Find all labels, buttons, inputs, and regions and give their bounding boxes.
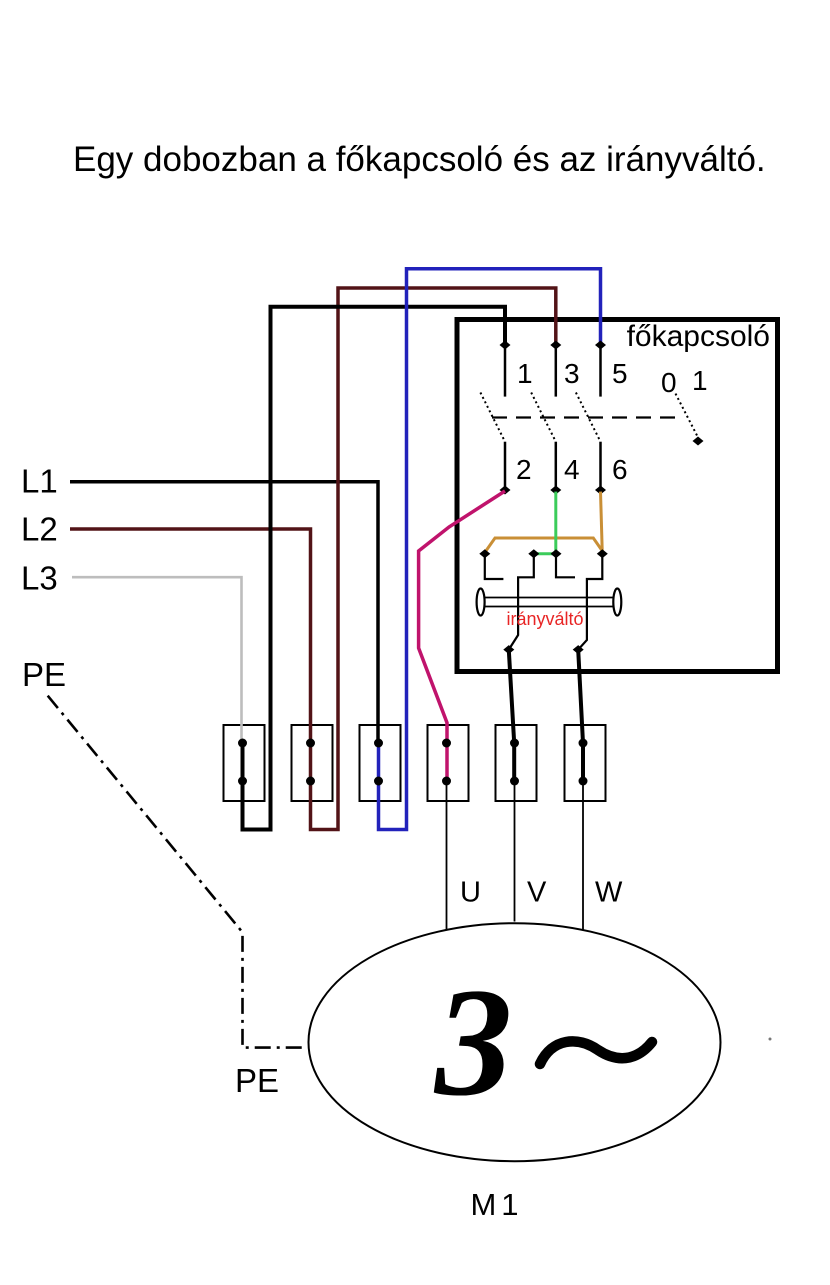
wire contact6 down (orange) (601, 492, 603, 554)
terminal dot contact 4 (550, 486, 561, 495)
wire reverser to X6 (thick black) (578, 650, 583, 781)
svg-text:V: V (527, 877, 547, 909)
actuator end dot (693, 437, 704, 446)
svg-text:5: 5 (612, 358, 628, 389)
reverser output dot right (573, 645, 584, 654)
reverser contact from D to output (578, 554, 602, 650)
wire X4 to motor U (446, 781, 448, 930)
wire contact2 to X4 (magenta) (419, 491, 505, 781)
svg-text:1: 1 (692, 365, 708, 396)
wire L3 (grey) to terminal X1 (72, 577, 242, 743)
svg-text:3: 3 (433, 956, 513, 1128)
svg-text:irányváltó: irányváltó (506, 609, 583, 629)
switch pole 3-4 vertical top (555, 345, 558, 397)
reverser contact from C (open) (556, 554, 575, 578)
terminal block X3 (360, 725, 401, 801)
switch pole 3-4 lever (dotted) (531, 393, 556, 442)
reverser node dot C (551, 549, 562, 558)
switch pole 5-6 vertical top (599, 345, 602, 397)
reverser output dot left (503, 645, 514, 654)
svg-text:L3: L3 (21, 560, 58, 597)
terminal X5 top dot (510, 739, 519, 748)
terminal dot contact 3 (550, 341, 561, 350)
svg-text:1: 1 (517, 358, 533, 389)
reverser node dot A (479, 549, 490, 558)
terminal X2 top dot (306, 739, 315, 748)
svg-text:Egy dobozban a főkapcsoló és a: Egy dobozban a főkapcsoló és az irányvál… (73, 140, 766, 179)
green jumper on reverser row (534, 552, 556, 555)
terminal block X6 (565, 725, 606, 801)
switch pole 5-6 vertical bottom (599, 442, 602, 490)
terminal dot contact 5 (595, 341, 606, 350)
reverser node dot D (597, 549, 608, 558)
svg-text:2: 2 (516, 454, 532, 485)
terminal X4 bottom dot (442, 777, 451, 786)
reverser node dot B (528, 549, 539, 558)
terminal block X2 (292, 725, 333, 801)
svg-text:M1: M1 (470, 1187, 523, 1222)
svg-text:3: 3 (564, 358, 580, 389)
reverser contact from A (open) (485, 554, 504, 579)
PE dash-dot conductor (48, 696, 307, 1048)
svg-text:PE: PE (22, 656, 66, 693)
terminal X3 bottom dot (374, 777, 383, 786)
terminal X5 bottom dot (510, 777, 519, 786)
switch pole 1-2 vertical bottom (504, 442, 507, 490)
mechanical link dashed line (492, 416, 682, 418)
reverser bar right knob (613, 589, 621, 616)
reverser bar left knob (477, 589, 485, 616)
wire contact4 down (green) (554, 492, 557, 554)
svg-text:főkapcsoló: főkapcsoló (627, 320, 770, 353)
svg-text:PE: PE (235, 1062, 279, 1099)
terminal dot contact 6 (595, 486, 606, 495)
terminal block X5 (496, 725, 537, 801)
terminal X3 top dot (374, 739, 383, 748)
reverser bar line lower (484, 606, 614, 608)
svg-text:6: 6 (612, 454, 628, 485)
motor M1 body (309, 923, 721, 1161)
switch pole 1-2 vertical top (504, 345, 507, 397)
wire L2 (dark red) through X2 and loop up to contact 3 (70, 288, 556, 830)
actuator dotted lever (676, 394, 699, 439)
orange bus on reverser row (485, 538, 604, 553)
switch pole 5-6 lever (dotted) (576, 393, 601, 442)
wire X5 to motor V (514, 781, 516, 922)
terminal block X4 (428, 725, 469, 801)
terminal dot contact 1 (500, 341, 511, 350)
terminal X1 bottom dot (238, 777, 247, 786)
terminal X4 top dot (442, 739, 451, 748)
enclosure box (főkapcsoló + irányváltó) (457, 320, 778, 672)
terminal X6 bottom dot (579, 777, 588, 786)
stray speck (769, 1038, 772, 1041)
reverser bar line upper (484, 597, 614, 599)
svg-text:L1: L1 (21, 463, 58, 500)
terminal X2 bottom dot (306, 777, 315, 786)
terminal dot contact 2 (500, 486, 511, 495)
svg-text:W: W (595, 877, 623, 909)
svg-text:4: 4 (564, 454, 580, 485)
terminal block X1 (224, 725, 265, 801)
reverser contact from B to output (509, 554, 534, 650)
wire X6 to motor W (582, 781, 584, 930)
terminal X1 top dot (238, 739, 247, 748)
svg-text:0: 0 (661, 367, 677, 398)
svg-text:L2: L2 (21, 510, 58, 547)
motor symbol tilde (540, 1041, 652, 1064)
wire L1 (black) to terminal X3 (70, 482, 378, 743)
svg-text:U: U (460, 877, 481, 909)
wire X3 loop (blue) up to contact 5 (379, 269, 601, 830)
wire reverser to X5 (thick black) (509, 650, 514, 781)
terminal X1 jumper (241, 743, 244, 781)
terminal X6 top dot (579, 739, 588, 748)
wire X1 loop (black) up to contact 1 (243, 307, 506, 830)
switch pole 3-4 vertical bottom (555, 442, 558, 490)
switch pole 1-2 lever (dotted) (480, 393, 505, 442)
